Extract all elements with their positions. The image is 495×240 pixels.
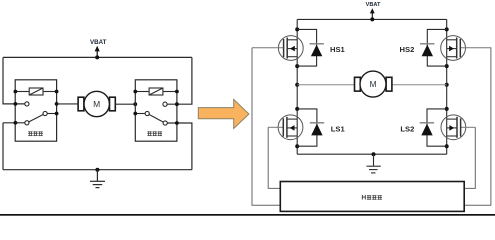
node VBAT junction right bbox=[370, 17, 374, 21]
node LS1 source bbox=[295, 144, 299, 148]
wire motor left right-circuit bbox=[297, 84, 354, 86]
wire bottom rail bbox=[3, 169, 192, 171]
node LS2 source bbox=[445, 144, 449, 148]
transistor LS2 bbox=[441, 115, 475, 140]
wire motor left bbox=[57, 103, 79, 105]
contact K1 fixed bbox=[25, 102, 29, 106]
node HS1 source bbox=[295, 64, 299, 68]
label relay K2 bbox=[147, 131, 162, 136]
contact K1 moving bbox=[43, 111, 47, 115]
node K2 coil right bbox=[175, 90, 179, 94]
ground right bbox=[367, 154, 381, 173]
diode LS1 body bbox=[297, 109, 324, 146]
node VBAT junction left bbox=[95, 55, 99, 59]
relay K2 coil bbox=[135, 88, 177, 95]
node K2 moving edge bbox=[133, 112, 137, 116]
wire top rail right bbox=[297, 18, 447, 20]
node LS1 drain bbox=[295, 107, 299, 111]
svg-text:LS2: LS2 bbox=[400, 124, 414, 133]
wire gate LS1 bbox=[268, 127, 280, 188]
contact K2 pivot bbox=[163, 121, 167, 125]
wire bottom rail right bbox=[297, 153, 447, 155]
svg-text:VBAT: VBAT bbox=[90, 39, 107, 46]
wire right upper vertical bbox=[167, 57, 192, 104]
transistor HS2 bbox=[441, 36, 492, 61]
wire motor right right-circuit bbox=[392, 84, 447, 86]
node K1 pivot stub bbox=[14, 121, 18, 125]
wire gate LS2 bbox=[464, 127, 475, 188]
motor M left brush L bbox=[78, 97, 84, 111]
node motor wire right bbox=[133, 102, 137, 106]
power VBAT arrow right bbox=[366, 2, 381, 20]
arrow orange bbox=[198, 99, 249, 128]
contact K2 moving bbox=[145, 111, 149, 115]
svg-text:HS1: HS1 bbox=[330, 45, 346, 54]
diode HS1 body bbox=[297, 29, 324, 66]
node K2 coil left bbox=[133, 90, 137, 94]
svg-text:HS2: HS2 bbox=[400, 45, 415, 54]
node ground junction left bbox=[95, 168, 99, 172]
relay K1 coil bbox=[15, 88, 56, 95]
node ground junction right bbox=[372, 152, 376, 156]
node HS2 drain bbox=[445, 27, 449, 31]
node HS2 source bbox=[445, 64, 449, 68]
svg-text:LS1: LS1 bbox=[331, 124, 346, 133]
switch K1 arm bbox=[29, 115, 43, 122]
diode LS2 body bbox=[420, 109, 447, 146]
transistor LS1 bbox=[268, 115, 303, 140]
node K1 coil left bbox=[14, 90, 18, 94]
node HS1 drain bbox=[295, 27, 299, 31]
motor M right brush R bbox=[386, 77, 392, 91]
relay K1 box bbox=[15, 80, 56, 141]
contact K1 pivot bbox=[25, 121, 29, 125]
motor M left body bbox=[84, 91, 109, 116]
node motor tap right bbox=[445, 83, 449, 87]
border bottom rule bbox=[0, 214, 495, 216]
diode HS2 body bbox=[420, 29, 447, 66]
power VBAT arrow left bbox=[90, 39, 107, 57]
wire top rail VBAT bbox=[3, 56, 192, 58]
wire motor right bbox=[115, 103, 135, 105]
node K1 moving edge bbox=[55, 112, 59, 116]
node K2 pivot edge bbox=[175, 121, 179, 125]
label H-bridge predriver bbox=[362, 195, 382, 200]
block H-bridge predriver U1 bbox=[280, 182, 464, 212]
node K1 coil right bbox=[55, 90, 59, 94]
wire left lower vertical bbox=[2, 123, 4, 170]
wire right lower vertical bbox=[167, 123, 192, 170]
label relay K1 bbox=[28, 131, 43, 136]
svg-text:VBAT: VBAT bbox=[366, 2, 381, 8]
wire HS2 LS2 drain column bbox=[446, 19, 448, 154]
node LS2 drain bbox=[445, 107, 449, 111]
svg-text:M: M bbox=[93, 99, 100, 109]
wire pivot stub left bbox=[3, 122, 25, 124]
transistor HS1 bbox=[252, 36, 303, 61]
wire gate HS2 bbox=[464, 48, 491, 206]
motor M right brush L bbox=[355, 77, 361, 91]
ground left bbox=[90, 170, 105, 188]
node K2 fixed edge bbox=[175, 102, 179, 106]
node K1 fixed stub bbox=[14, 102, 18, 106]
node motor wire left bbox=[55, 102, 59, 106]
node motor tap left bbox=[295, 83, 299, 87]
wire HS1 LS1 drain column bbox=[296, 19, 298, 154]
wire K1 moving to edge bbox=[47, 113, 56, 115]
svg-text:M: M bbox=[369, 79, 376, 89]
wire gate HS1 bbox=[252, 48, 280, 206]
motor M right body bbox=[360, 71, 386, 97]
wire K2 moving to edge bbox=[135, 113, 145, 115]
wire left upper vertical bbox=[3, 57, 25, 104]
contact K2 fixed bbox=[163, 102, 167, 106]
relay K2 box bbox=[135, 80, 177, 141]
motor M left brush R bbox=[110, 97, 116, 111]
switch K2 arm bbox=[149, 115, 163, 123]
